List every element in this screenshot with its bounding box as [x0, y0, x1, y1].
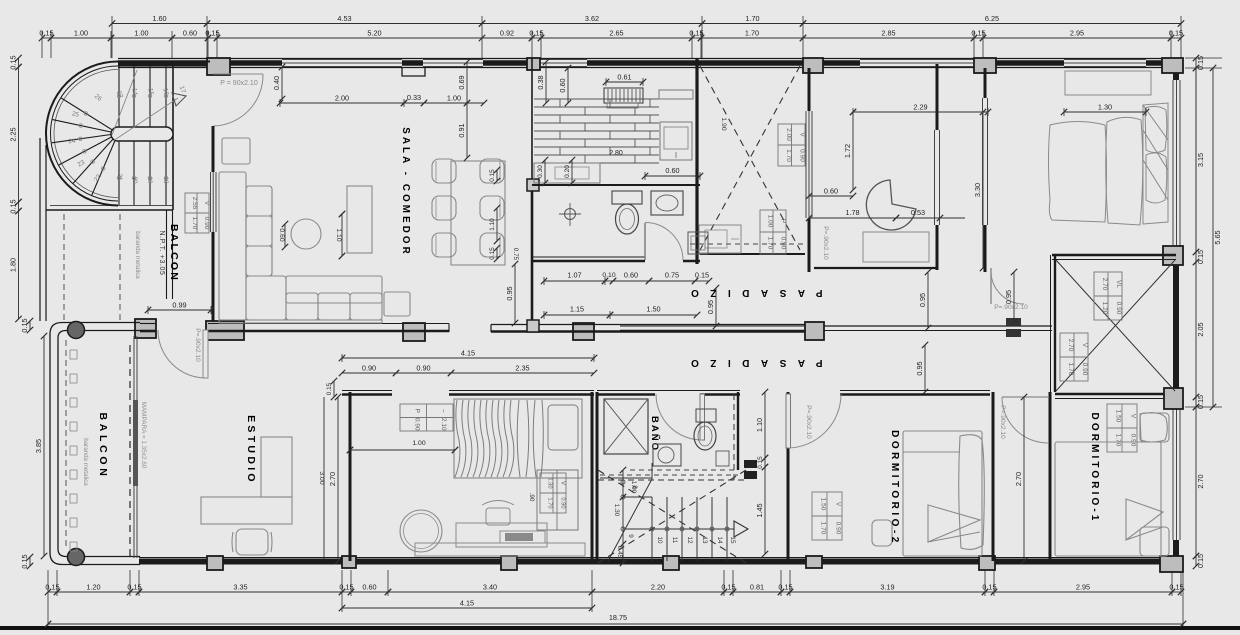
- svg-text:0.60: 0.60: [362, 583, 376, 592]
- duct window label V 0.90 2.00x1.70: [778, 124, 805, 166]
- svg-text:0.61: 0.61: [617, 73, 631, 82]
- svg-text:1.78: 1.78: [845, 208, 859, 217]
- bathF east wall: [936, 64, 939, 130]
- svg-text:P=.90x2.10: P=.90x2.10: [194, 328, 201, 362]
- lower balcony dashed projection lines: [65, 340, 67, 550]
- svg-text:0.90: 0.90: [798, 149, 805, 162]
- bathF south wall: [814, 267, 937, 269]
- svg-text:1.50: 1.50: [1115, 410, 1122, 423]
- window V mampara on west wall: [210, 172, 217, 232]
- svg-text:0.33: 0.33: [407, 93, 421, 102]
- svg-text:1.10: 1.10: [489, 218, 496, 231]
- room K low shelf: [415, 543, 585, 556]
- svg-text:0.45: 0.45: [616, 546, 623, 559]
- svg-text:0.15: 0.15: [9, 199, 18, 213]
- svg-text:9: 9: [627, 534, 634, 538]
- svg-text:1.90: 1.90: [720, 117, 727, 130]
- sala coffee table: [347, 186, 372, 253]
- top dimension row 2: [39, 29, 54, 42]
- closet labels: [1094, 272, 1122, 320]
- svg-text:1.30: 1.30: [613, 504, 620, 517]
- svg-text:0.15: 0.15: [1196, 250, 1205, 264]
- stair direction line and arrow 17: [113, 98, 178, 141]
- bath2 shower tile X: [604, 399, 648, 454]
- bed dormG: [1049, 103, 1169, 225]
- svg-text:MAMPARA = 1.35x2.60: MAMPARA = 1.35x2.60: [140, 402, 147, 469]
- entry passage walls below stair: [166, 210, 168, 299]
- svg-text:2.70: 2.70: [328, 472, 337, 486]
- dining dims right: [489, 167, 500, 184]
- svg-text:3.35: 3.35: [233, 583, 247, 592]
- dorm2 bed: [872, 431, 984, 556]
- dining table: [451, 161, 505, 265]
- sala south wall segments: [208, 330, 449, 333]
- svg-text:1.30: 1.30: [1098, 103, 1112, 112]
- closet N walls: [1052, 254, 1176, 256]
- svg-text:0.15: 0.15: [20, 318, 29, 332]
- svg-text:0.40: 0.40: [272, 76, 281, 90]
- bottom dimension row 3 : 18.75: [45, 621, 1186, 627]
- svg-text:0.95: 0.95: [1004, 290, 1013, 304]
- svg-text:2.70: 2.70: [1196, 474, 1205, 488]
- kitchen fridge/counter right: [659, 90, 693, 99]
- svg-text:V: V: [835, 502, 842, 507]
- svg-text:2.00: 2.00: [785, 128, 792, 141]
- dorm2 door leaf+arc: [786, 394, 791, 448]
- svg-text:3.19: 3.19: [880, 583, 894, 592]
- kitchen east wall: [695, 58, 698, 264]
- stair radial treads: [61, 98, 118, 134]
- room K east wall: [591, 392, 594, 561]
- svg-text:5.20: 5.20: [367, 29, 381, 38]
- svg-text:0.81: 0.81: [750, 583, 764, 592]
- bath2 bottom dashed: [630, 469, 738, 471]
- upper balcony left rail: [39, 138, 41, 321]
- svg-text:0.15: 0.15: [20, 554, 29, 568]
- dorm2 west wall: [787, 392, 790, 561]
- lower balcony rounded rail: [50, 323, 140, 565]
- svg-text:14: 14: [716, 536, 723, 544]
- bath2 (BAÑO) walls: [596, 392, 599, 563]
- svg-text:15: 15: [729, 536, 736, 544]
- svg-text:2.25: 2.25: [9, 127, 18, 141]
- balcony corner posts: [68, 322, 85, 339]
- svg-text:1.70: 1.70: [745, 14, 759, 23]
- svg-text:0.60: 0.60: [183, 29, 197, 38]
- duct east wall / bathF west wall: [808, 68, 811, 111]
- svg-text:0.15: 0.15: [757, 456, 764, 469]
- room K top wall: [342, 393, 392, 396]
- svg-text:PASADIZO: PASADIZO: [680, 357, 823, 368]
- stair2 winder steps: [651, 463, 653, 479]
- svg-text:P=.90x2.10: P=.90x2.10: [805, 405, 812, 439]
- wall nicho outline: [402, 67, 425, 76]
- room K round table: [400, 510, 442, 552]
- svg-text:2.55: 2.55: [191, 197, 198, 210]
- right dimension chains: [1193, 55, 1205, 71]
- spiral staircase outer rail arcs: [46, 62, 118, 206]
- corridor above K dims: [339, 349, 597, 363]
- svg-text:1.00: 1.00: [447, 94, 461, 103]
- svg-text:3.00: 3.00: [318, 471, 325, 484]
- structural columns: [207, 58, 230, 75]
- svg-text:1.70: 1.70: [745, 29, 759, 38]
- svg-text:DORMITORIO-2: DORMITORIO-2: [889, 430, 900, 546]
- bath1 door leaf+arc: [644, 223, 646, 260]
- svg-text:2.35: 2.35: [515, 364, 529, 373]
- sala round table: [291, 219, 321, 249]
- svg-text:0.90: 0.90: [413, 418, 420, 431]
- closet S wall: [1055, 393, 1164, 395]
- svg-text:0.20: 0.20: [564, 165, 571, 178]
- svg-text:1.70: 1.70: [767, 237, 774, 250]
- svg-text:2.95: 2.95: [1076, 583, 1090, 592]
- svg-text:0.15: 0.15: [489, 169, 496, 182]
- svg-text:13: 13: [701, 536, 708, 544]
- svg-text:1.70: 1.70: [1115, 434, 1122, 447]
- svg-text:2.05: 2.05: [1196, 322, 1205, 336]
- svg-text:1.00: 1.00: [74, 29, 88, 38]
- staircase right edge wall: [172, 61, 174, 210]
- svg-text:0.15: 0.15: [9, 55, 18, 69]
- stair tread mid dots: [84, 112, 88, 116]
- svg-text:0.60: 0.60: [624, 271, 638, 280]
- svg-text:baranda metalica: baranda metalica: [134, 231, 141, 279]
- svg-text:4.53: 4.53: [337, 14, 351, 23]
- duct door label block: [760, 210, 787, 254]
- svg-text:3.15: 3.15: [1196, 153, 1205, 167]
- room K desk chair: [482, 501, 514, 526]
- bottom dimension row 1: [45, 583, 60, 596]
- svg-text:0.60: 0.60: [824, 187, 838, 196]
- svg-text:0.15: 0.15: [1196, 554, 1205, 568]
- dorm1 door leaf+arc: [1002, 397, 1048, 443]
- svg-text:1.70: 1.70: [820, 522, 827, 535]
- svg-text:3.85: 3.85: [34, 439, 43, 453]
- svg-text:2.00: 2.00: [335, 94, 349, 103]
- svg-text:0.38: 0.38: [536, 75, 545, 89]
- svg-text:0.99: 0.99: [172, 301, 186, 310]
- svg-text:P = 90x2.10: P = 90x2.10: [220, 80, 258, 87]
- bottom dimension row 2 : 4.15: [339, 599, 595, 612]
- svg-text:0.90: 0.90: [780, 237, 787, 250]
- svg-text:0.15: 0.15: [982, 583, 996, 592]
- svg-text:DORMITORIO-1: DORMITORIO-1: [1089, 413, 1100, 524]
- svg-text:–: –: [440, 409, 447, 413]
- svg-text:2.20: 2.20: [651, 583, 665, 592]
- stair center landing pill: [111, 127, 173, 141]
- top dimension row 1: [109, 14, 210, 27]
- svg-text:0.95: 0.95: [505, 286, 514, 300]
- room K desk: [456, 523, 547, 547]
- estudio chair: [232, 529, 272, 555]
- svg-text:ESTUDIO: ESTUDIO: [245, 415, 257, 485]
- svg-text:0.75: 0.75: [665, 271, 679, 280]
- bath2 door leaf+arc: [700, 394, 705, 440]
- svg-text:1.50: 1.50: [820, 498, 827, 511]
- svg-text:P: P: [413, 409, 420, 413]
- svg-text:0.60: 0.60: [278, 228, 285, 241]
- svg-text:P=.90x2.10: P=.90x2.10: [999, 405, 1006, 439]
- svg-text:1.15: 1.15: [570, 305, 584, 314]
- dorm1 window label: [1107, 404, 1137, 452]
- duct sink: [699, 225, 741, 253]
- svg-text:0.91: 0.91: [457, 123, 466, 137]
- svg-text:0.75: 0.75: [512, 248, 519, 261]
- svg-text:0.90: 0.90: [362, 364, 376, 373]
- kitchen stove: [604, 88, 643, 103]
- svg-text:2.29: 2.29: [913, 103, 927, 112]
- svg-text:0.15: 0.15: [721, 583, 735, 592]
- svg-text:0.30: 0.30: [537, 165, 544, 178]
- svg-text:2.85: 2.85: [881, 29, 895, 38]
- svg-text:2.70: 2.70: [1067, 339, 1074, 352]
- svg-text:3.62: 3.62: [585, 14, 599, 23]
- svg-text:1.10: 1.10: [335, 228, 342, 241]
- bath1 shower head: [565, 209, 576, 220]
- stair straight risers: [118, 64, 120, 127]
- bottom extension lines: [48, 570, 1183, 626]
- staircase top and bottom edges: [118, 61, 210, 63]
- svg-text:1.10: 1.10: [755, 418, 764, 432]
- duct lower small room walls: [700, 253, 805, 255]
- bath1 toilet: [612, 191, 642, 204]
- svg-text:baranda metalica: baranda metalica: [82, 438, 89, 486]
- svg-text:4.15: 4.15: [460, 599, 474, 608]
- lower staircase X dashed: [598, 470, 746, 563]
- bath2 fixture right: [716, 451, 729, 466]
- svg-text:0.90: 0.90: [560, 497, 566, 508]
- dormG door arc at corridor: [991, 271, 1024, 304]
- svg-text:0.15: 0.15: [489, 247, 496, 260]
- svg-text:0.60: 0.60: [558, 78, 567, 92]
- svg-text:24: 24: [68, 138, 76, 146]
- svg-text:0.15: 0.15: [39, 29, 53, 38]
- corridor-stairs dims right: [755, 389, 768, 461]
- corridor upper dims: [541, 271, 608, 286]
- lower staircase dashed border: [598, 479, 746, 481]
- svg-text:P=.90x2.10: P=.90x2.10: [822, 226, 829, 260]
- room K door label P 0.90x2.10: [400, 404, 453, 431]
- svg-text:0.90: 0.90: [835, 522, 842, 535]
- svg-text:1.70: 1.70: [547, 497, 553, 508]
- svg-text:2.70: 2.70: [1101, 278, 1108, 291]
- balcony rail post marks: [70, 350, 77, 359]
- duct dashed X brace: [700, 66, 800, 250]
- bath corner poche blobs: [744, 460, 757, 468]
- bottom exterior wall: [139, 559, 1181, 565]
- svg-text:P: P: [780, 219, 787, 223]
- stair2 center line with arrow: [623, 528, 734, 530]
- svg-text:3.40: 3.40: [483, 583, 497, 592]
- svg-text:0.15: 0.15: [205, 29, 219, 38]
- svg-text:0.15: 0.15: [326, 382, 333, 395]
- svg-text:0.15: 0.15: [971, 29, 985, 38]
- svg-text:0.90: 0.90: [416, 364, 430, 373]
- svg-text:2.65: 2.65: [609, 29, 623, 38]
- svg-text:BALCON: BALCON: [97, 412, 109, 479]
- svg-text:6.25: 6.25: [985, 14, 999, 23]
- corridor wall poche blocks: [1006, 318, 1021, 326]
- bottom border line: [0, 626, 1240, 630]
- svg-text:1.20: 1.20: [1101, 302, 1108, 315]
- svg-text:1.07: 1.07: [567, 271, 581, 280]
- closet X: [1056, 260, 1175, 391]
- kitchen west wall: [531, 58, 533, 185]
- door stair-hall P=90x2.10: [213, 73, 263, 75]
- estudio L desk: [201, 497, 292, 524]
- headboard shelf dormG: [1065, 71, 1151, 95]
- sala sofa sectional: [219, 138, 410, 323]
- svg-text:V: V: [1130, 414, 1137, 419]
- svg-text:2.70: 2.70: [1014, 472, 1023, 486]
- svg-text:0.90: 0.90: [1130, 434, 1137, 447]
- svg-text:1.00: 1.00: [134, 29, 148, 38]
- svg-text:.90: .90: [528, 493, 535, 502]
- svg-text:0.90: 0.90: [1081, 363, 1088, 376]
- svg-text:1.00: 1.00: [630, 481, 637, 494]
- svg-text:0.15: 0.15: [695, 271, 709, 280]
- right wall window zones: [1173, 80, 1181, 246]
- top wall windows (thin): [282, 59, 402, 67]
- svg-text:0.69: 0.69: [457, 75, 466, 89]
- corridor south-center walls: [620, 330, 805, 332]
- svg-text:18.75: 18.75: [609, 613, 627, 622]
- svg-text:1.70: 1.70: [191, 217, 198, 230]
- top exterior wall: [118, 60, 1181, 66]
- svg-text:3.30: 3.30: [973, 183, 982, 197]
- svg-text:N.P.T. +3.05: N.P.T. +3.05: [158, 230, 165, 275]
- room K interior dims left: [328, 394, 341, 564]
- dorm1 west wall: [1049, 392, 1052, 561]
- svg-text:0.95: 0.95: [915, 361, 924, 375]
- sala top dims: [277, 94, 407, 108]
- bath1 south wall with door opening: [532, 260, 645, 263]
- dorm2 window label: [812, 492, 842, 540]
- kitchen sink: [660, 122, 692, 160]
- svg-text:1.72: 1.72: [843, 144, 852, 158]
- room K west wall: [349, 392, 352, 561]
- bath1 small fixture right: [688, 232, 708, 254]
- svg-text:11: 11: [671, 537, 678, 544]
- svg-text:0.15: 0.15: [529, 29, 543, 38]
- svg-text:0.60: 0.60: [665, 166, 679, 175]
- bath2 sink: [653, 444, 681, 466]
- svg-text:4.15: 4.15: [461, 349, 475, 358]
- svg-text:1.00: 1.00: [412, 440, 425, 447]
- kitchen lower counters: [534, 163, 600, 183]
- svg-text:BAÑO: BAÑO: [649, 416, 660, 452]
- lower staircase risers: [652, 497, 727, 561]
- svg-text:V: V: [798, 132, 805, 137]
- svg-text:1.20: 1.20: [86, 583, 100, 592]
- dorm2 east wall: [992, 392, 995, 561]
- left dimension chain: [9, 55, 22, 70]
- svg-text:VL: VL: [1115, 280, 1122, 288]
- svg-text:2.10: 2.10: [440, 418, 447, 431]
- svg-text:1.30: 1.30: [547, 477, 553, 488]
- svg-text:SALA - COMEDOR: SALA - COMEDOR: [400, 127, 411, 257]
- bath2 toilet: [696, 409, 716, 422]
- dorm1 bed: [1055, 413, 1169, 556]
- svg-text:2.95: 2.95: [1070, 29, 1084, 38]
- bath1 sink: [651, 191, 683, 215]
- svg-text:1.70: 1.70: [1067, 363, 1074, 376]
- room K dim 1.00: [347, 447, 458, 453]
- room K closet cabinet: [537, 470, 578, 530]
- svg-text:V: V: [1081, 343, 1088, 348]
- svg-text:1.70: 1.70: [785, 149, 792, 162]
- svg-text:1.45: 1.45: [755, 503, 764, 517]
- svg-text:BALCON: BALCON: [168, 224, 180, 282]
- svg-text:12: 12: [686, 536, 693, 544]
- svg-text:0.15: 0.15: [45, 583, 59, 592]
- svg-text:1.80: 1.80: [9, 258, 18, 272]
- svg-text:V: V: [560, 481, 566, 485]
- bath1 west wall + corridor column: [531, 185, 534, 332]
- svg-text:0.15: 0.15: [339, 583, 353, 592]
- svg-text:0.53: 0.53: [911, 208, 925, 217]
- kitchen floor brick pattern: [534, 99, 659, 163]
- svg-text:0.90: 0.90: [203, 217, 210, 230]
- svg-text:1.50: 1.50: [646, 305, 660, 314]
- svg-text:0.15: 0.15: [778, 583, 792, 592]
- svg-text:1.60: 1.60: [152, 14, 166, 23]
- dormG west wall: [984, 68, 987, 98]
- svg-text:V: V: [203, 201, 210, 206]
- svg-text:0.15: 0.15: [1169, 583, 1183, 592]
- room K bed with drapes: [454, 399, 582, 478]
- svg-text:0.90: 0.90: [1115, 302, 1122, 315]
- svg-text:0.95: 0.95: [706, 300, 715, 314]
- svg-text:PASADIZO: PASADIZO: [680, 287, 823, 298]
- mampara glass wall: [133, 336, 135, 558]
- dorm2 top wall: [840, 393, 990, 396]
- svg-text:0.15: 0.15: [689, 29, 703, 38]
- estudio door (P=.90x2.10) leaf and arc: [203, 330, 208, 378]
- dorm1 interior dim: [1014, 394, 1027, 564]
- upper balcony dashed lines: [63, 214, 65, 321]
- svg-text:0.92: 0.92: [500, 29, 514, 38]
- svg-text:5.65: 5.65: [1213, 230, 1222, 244]
- svg-text:0.10: 0.10: [602, 272, 615, 279]
- left wall below stair door (sala west wall): [212, 126, 215, 321]
- kitchen/bath1 divider wall: [532, 184, 700, 186]
- bathF vanity counter: [863, 232, 929, 262]
- svg-text:10: 10: [656, 536, 663, 544]
- bathF dims: [850, 103, 991, 117]
- stair2 dims: [620, 467, 626, 566]
- svg-text:0.95: 0.95: [918, 293, 927, 307]
- window label V 0.90 2.55x1.70: [185, 193, 210, 233]
- svg-text:0.15: 0.15: [127, 583, 141, 592]
- sala dim 1.10 and 0.60: [339, 211, 345, 259]
- right exterior wall: [1173, 58, 1179, 80]
- top extension lines: [42, 16, 1181, 58]
- bathF door swing shape: [866, 180, 916, 230]
- dining chairs: [432, 159, 504, 257]
- svg-text:2.80: 2.80: [609, 150, 623, 157]
- svg-text:1.00: 1.00: [767, 215, 774, 228]
